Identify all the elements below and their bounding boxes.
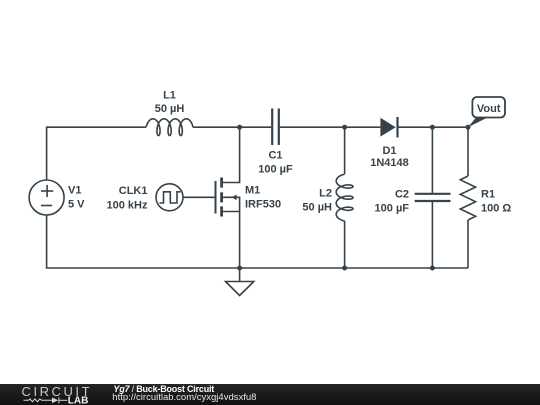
wire top: V1 to L1 [47, 127, 146, 180]
wire: C2 top [431, 127, 433, 194]
svg-text:LAB: LAB [68, 395, 89, 405]
svg-text:5 V: 5 V [68, 199, 85, 211]
svg-text:100 µF: 100 µF [375, 203, 410, 215]
CircuitLab logo [0, 384, 100, 405]
inductor L1 [146, 119, 193, 136]
wire: M1 drain up [222, 127, 240, 182]
svg-text:R1: R1 [481, 189, 495, 201]
node dot: L2 / top rail [342, 125, 347, 130]
wire: M1 source down [222, 212, 240, 269]
footer bar [0, 384, 540, 405]
svg-text:100 Ω: 100 Ω [481, 203, 511, 215]
node dot: C2 / bottom rail [430, 266, 435, 271]
wire: R1 bottom [467, 220, 469, 268]
capacitor C2 [415, 194, 451, 201]
resistor R1 [460, 176, 475, 220]
wire: C2 bottom [431, 201, 433, 268]
svg-text:1N4148: 1N4148 [370, 157, 409, 169]
svg-text:CLK1: CLK1 [119, 185, 148, 197]
ground [226, 268, 254, 296]
wire: L1 to C1 [193, 126, 272, 128]
svg-text:V1: V1 [68, 185, 81, 197]
node dot: M1 drain / top rail [237, 125, 242, 130]
wire: D1 to Vout node [398, 126, 469, 128]
svg-text:C1: C1 [268, 150, 282, 162]
footer line 2 [112, 393, 256, 404]
svg-text:C2: C2 [395, 189, 409, 201]
svg-text:L1: L1 [163, 90, 176, 102]
svg-text:D1: D1 [382, 145, 396, 157]
svg-text:M1: M1 [245, 185, 260, 197]
inductor L2 [336, 174, 353, 221]
voltage source V1 [29, 180, 64, 215]
wire: C1 to D1 [279, 126, 381, 128]
svg-text:50 µH: 50 µH [155, 103, 185, 115]
clock source CLK1 [156, 184, 183, 211]
footer line 1 [113, 384, 214, 394]
node dot: L2 / bottom rail [342, 266, 347, 271]
node dot: Vout [466, 125, 471, 130]
capacitor C1 [272, 109, 279, 146]
svg-text:100 µF: 100 µF [258, 164, 293, 176]
svg-text:50 µH: 50 µH [302, 202, 332, 214]
node dot: ground junction [237, 266, 242, 271]
wire: L2 bottom [344, 221, 346, 268]
svg-text:Vout: Vout [477, 103, 501, 115]
transistor M1 (NMOS) [216, 178, 240, 217]
diode D1 [380, 117, 397, 137]
node Vout flag [468, 97, 505, 127]
wire: L2 top [344, 127, 346, 174]
svg-text:L2: L2 [319, 188, 332, 200]
wire: V1 bottom to ground rail [47, 215, 468, 268]
wire: CLK1 to gate [183, 196, 216, 198]
svg-text:IRF530: IRF530 [245, 199, 281, 211]
svg-text:100 kHz: 100 kHz [107, 200, 148, 212]
node dot: C2 / top rail [430, 125, 435, 130]
wire: R1 top [467, 127, 469, 176]
